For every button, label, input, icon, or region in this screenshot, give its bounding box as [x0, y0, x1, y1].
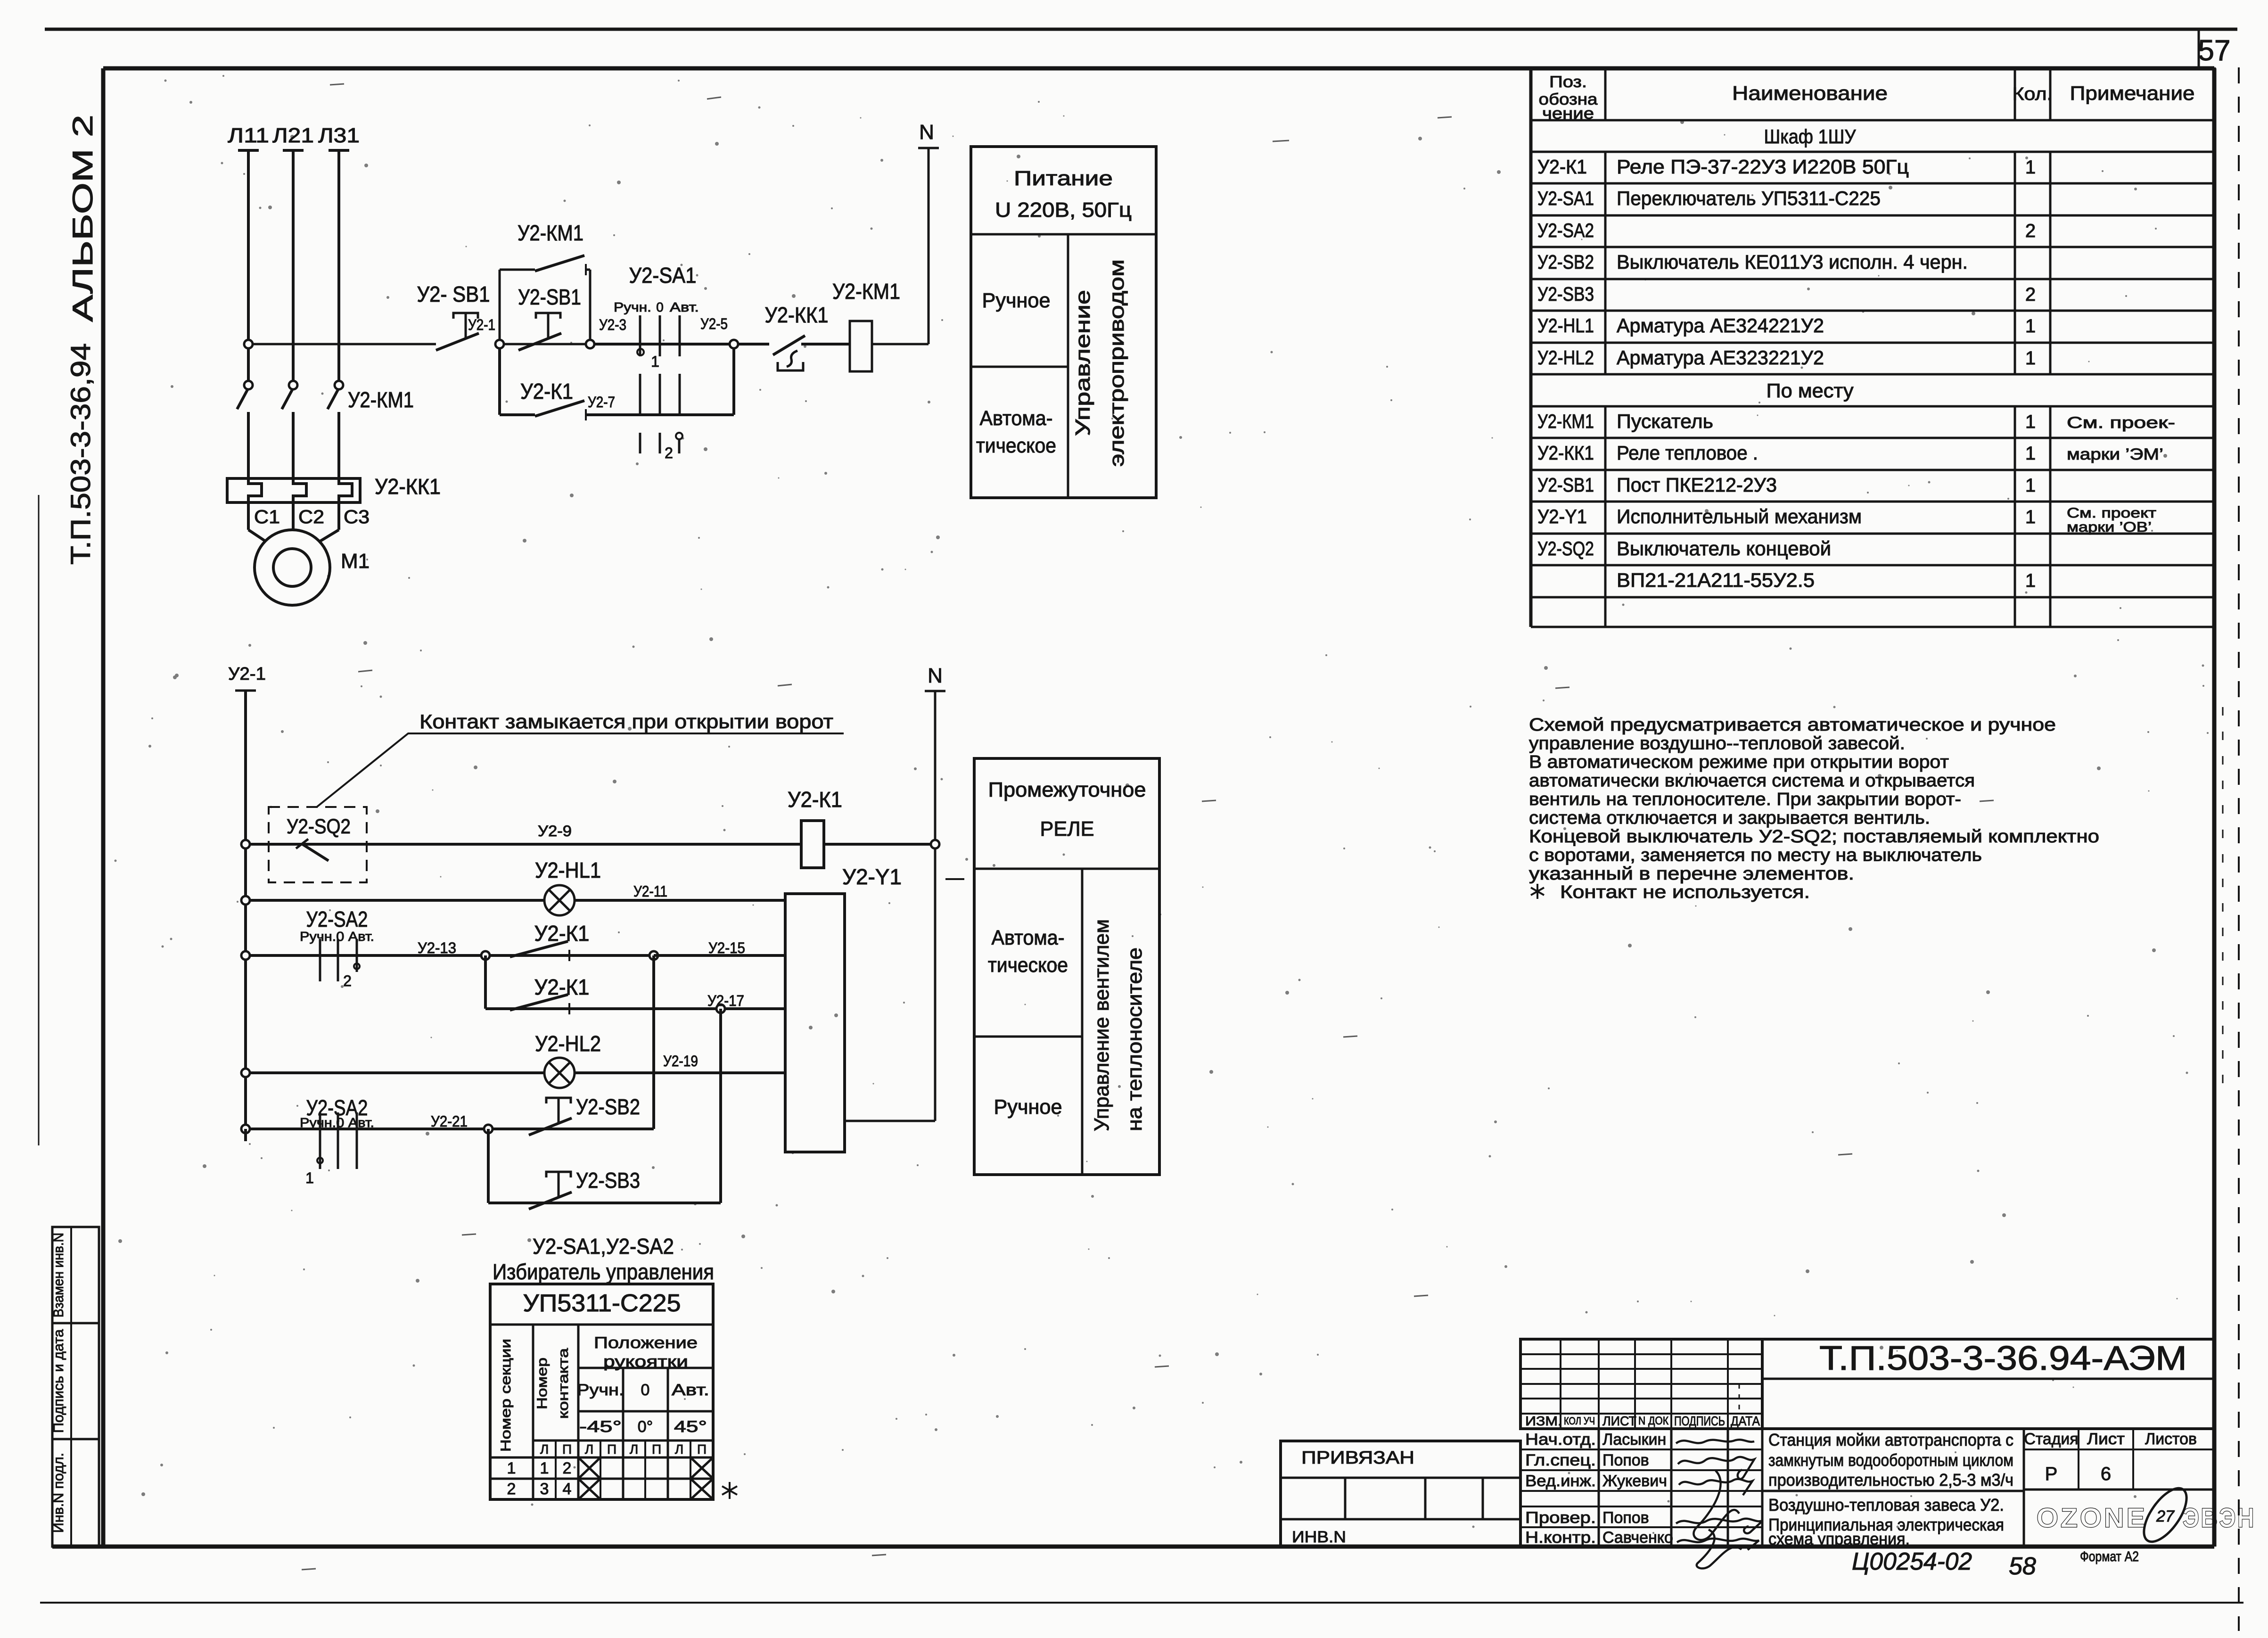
svg-text:0: 0 — [641, 1381, 650, 1399]
svg-text:1: 1 — [2025, 475, 2036, 496]
svg-text:Гл.спец.: Гл.спец. — [1525, 1451, 1596, 1469]
svg-text:2: 2 — [2025, 284, 2036, 305]
svg-text:Ц00254-02: Ц00254-02 — [1852, 1548, 1972, 1575]
svg-text:У2- SB1: У2- SB1 — [417, 282, 490, 306]
svg-text:1: 1 — [507, 1459, 516, 1477]
svg-text:В автоматическом режиме при от: В автоматическом режиме при открытии вор… — [1529, 752, 1949, 772]
svg-text:У2-7: У2-7 — [588, 394, 615, 411]
svg-text:У2-SB2: У2-SB2 — [576, 1095, 640, 1119]
svg-text:электроприводом: электроприводом — [1105, 259, 1128, 467]
svg-text:У2-К1: У2-К1 — [534, 921, 590, 946]
svg-text:схема управления.: схема управления. — [1768, 1529, 1910, 1548]
svg-text:У2-К1: У2-К1 — [788, 787, 842, 812]
svg-text:Ручн.: Ручн. — [614, 300, 651, 314]
svg-text:ЛИСТ: ЛИСТ — [1602, 1414, 1636, 1428]
svg-text:Автома-: Автома- — [992, 926, 1065, 949]
svg-text:У2-SA2: У2-SA2 — [306, 907, 368, 931]
svg-text:производительностью 2,5-3 м3/ч: производительностью 2,5-3 м3/ч — [1768, 1470, 2013, 1490]
svg-text:Попов: Попов — [1602, 1509, 1649, 1527]
svg-text:ПОДПИСЬ: ПОДПИСЬ — [1674, 1414, 1725, 1428]
svg-text:Попов: Попов — [1602, 1451, 1649, 1469]
svg-text:Ручн.0 Авт.: Ручн.0 Авт. — [300, 929, 374, 944]
svg-text:Положение: Положение — [594, 1334, 698, 1352]
svg-text:марки ’ЭМ’: марки ’ЭМ’ — [2067, 445, 2163, 463]
svg-text:Наименование: Наименование — [1732, 82, 1888, 104]
svg-text:У2-SA1,У2-SA2: У2-SA1,У2-SA2 — [533, 1234, 674, 1259]
svg-text:45°: 45° — [674, 1418, 707, 1436]
svg-text:У2-К1: У2-К1 — [520, 379, 573, 403]
svg-text:У2-15: У2-15 — [708, 939, 745, 956]
svg-text:Управление вентилем: Управление вентилем — [1090, 919, 1113, 1131]
svg-text:Реле тепловое .: Реле тепловое . — [1617, 442, 1758, 464]
svg-text:У2-11: У2-11 — [633, 883, 667, 900]
svg-text:АЛЬБОМ 2: АЛЬБОМ 2 — [67, 115, 99, 322]
svg-text:ИНВ.N: ИНВ.N — [1292, 1528, 1346, 1546]
svg-text:У2-HL2: У2-HL2 — [1537, 346, 1594, 369]
svg-text:У2-SQ2: У2-SQ2 — [287, 815, 351, 838]
svg-text:У2-SA2: У2-SA2 — [1537, 219, 1594, 241]
svg-text:1: 1 — [2025, 570, 2036, 591]
svg-text:контакта: контакта — [556, 1348, 571, 1419]
svg-text:Ручное: Ручное — [982, 289, 1051, 312]
svg-text:У2-13: У2-13 — [418, 939, 456, 956]
svg-text:У2-5: У2-5 — [700, 315, 728, 332]
svg-text:Жукевич: Жукевич — [1602, 1472, 1667, 1490]
svg-text:УП5311-С225: УП5311-С225 — [523, 1290, 681, 1317]
svg-text:Л: Л — [585, 1442, 593, 1457]
svg-text:27: 27 — [2156, 1507, 2175, 1525]
svg-text:вентиль на теплоносителе. При: вентиль на теплоносителе. При закрытии в… — [1529, 790, 1961, 809]
svg-text:У2-1: У2-1 — [228, 664, 266, 684]
svg-text:У2-КМ1: У2-КМ1 — [348, 387, 414, 412]
svg-text:П: П — [562, 1442, 572, 1457]
svg-text:2: 2 — [563, 1459, 572, 1477]
svg-text:У2-SB1: У2-SB1 — [1537, 474, 1594, 496]
svg-text:Номер: Номер — [534, 1358, 550, 1409]
svg-text:на теплоносителе: на теплоносителе — [1123, 947, 1146, 1131]
svg-text:Т.П.503-3-36,94: Т.П.503-3-36,94 — [66, 343, 96, 565]
svg-text:6: 6 — [2101, 1464, 2111, 1484]
svg-text:1: 1 — [2025, 507, 2036, 527]
svg-text:автоматически включается систе: автоматически включается система и откры… — [1529, 771, 1975, 791]
svg-text:1: 1 — [2025, 412, 2036, 432]
svg-text:Выключатель КЕ011У3 исполн. 4: Выключатель КЕ011У3 исполн. 4 черн. — [1617, 251, 1968, 273]
svg-text:тическое: тическое — [988, 954, 1068, 977]
svg-text:N ДОК: N ДОК — [1638, 1415, 1668, 1427]
svg-text:Провер.: Провер. — [1525, 1509, 1596, 1527]
svg-text:1: 1 — [2025, 157, 2036, 178]
svg-text:Арматура АЕ323221У2: Арматура АЕ323221У2 — [1617, 346, 1824, 369]
svg-text:рукоятки: рукоятки — [603, 1353, 688, 1371]
svg-text:См. проект: См. проект — [2067, 505, 2156, 521]
svg-text:М1: М1 — [341, 550, 370, 573]
svg-text:OZONE: OZONE — [2037, 1503, 2147, 1533]
svg-text:У2-К1: У2-К1 — [1537, 156, 1587, 178]
svg-text:У2-HL1: У2-HL1 — [1537, 314, 1594, 337]
svg-text:У2-КК1: У2-КК1 — [375, 474, 441, 499]
svg-text:См. проек-: См. проек- — [2067, 414, 2175, 432]
svg-text:Савченко: Савченко — [1602, 1529, 1673, 1547]
svg-text:2: 2 — [343, 972, 352, 989]
svg-text:Контакт не используется.: Контакт не используется. — [1560, 882, 1810, 902]
svg-text:Номер секции: Номер секции — [498, 1339, 514, 1452]
svg-text:Промежуточное: Промежуточное — [988, 778, 1146, 801]
svg-text:Л: Л — [675, 1442, 683, 1457]
svg-text:2: 2 — [665, 444, 673, 461]
svg-text:Пускатель: Пускатель — [1617, 410, 1713, 432]
svg-text:У2-SA1: У2-SA1 — [1537, 187, 1594, 209]
svg-text:система отключается и закрывае: система отключается и закрывается вентил… — [1529, 808, 1930, 828]
svg-text:1: 1 — [651, 353, 659, 370]
svg-text:Примечание: Примечание — [2070, 82, 2195, 104]
svg-text:Подпись и дата: Подпись и дата — [51, 1329, 66, 1433]
svg-text:П: П — [607, 1442, 616, 1457]
svg-text:У2-17: У2-17 — [707, 992, 744, 1009]
svg-text:Л: Л — [630, 1442, 638, 1457]
svg-text:У2-3: У2-3 — [599, 316, 626, 333]
svg-text:1: 1 — [540, 1459, 549, 1477]
svg-text:Переключатель УП5311-С225: Переключатель УП5311-С225 — [1617, 187, 1881, 209]
svg-text:Кол.: Кол. — [2013, 84, 2053, 104]
svg-text:С2: С2 — [298, 507, 324, 527]
svg-text:Листов: Листов — [2145, 1430, 2197, 1448]
svg-text:Вед.инж.: Вед.инж. — [1525, 1472, 1596, 1490]
svg-text:0: 0 — [656, 300, 664, 314]
svg-text:Выключатель концевой: Выключатель концевой — [1617, 537, 1831, 560]
svg-text:Воздушно-тепловая завеса У2.: Воздушно-тепловая завеса У2. — [1768, 1495, 2004, 1515]
svg-text:У2-9: У2-9 — [538, 823, 572, 840]
svg-text:U 220В, 50Гц: U 220В, 50Гц — [995, 198, 1132, 222]
svg-text:У2-КМ1: У2-КМ1 — [1537, 410, 1594, 432]
svg-text:Стадия: Стадия — [2024, 1430, 2079, 1448]
svg-text:1: 1 — [305, 1169, 314, 1186]
svg-text:управление воздушно--тепловой: управление воздушно--тепловой завесой. — [1529, 734, 1905, 754]
svg-text:У2-19: У2-19 — [663, 1053, 698, 1070]
svg-text:Р: Р — [2045, 1464, 2058, 1484]
svg-text:ВП21-21А211-55У2.5: ВП21-21А211-55У2.5 — [1617, 569, 1815, 591]
svg-text:марки ’ОВ’: марки ’ОВ’ — [2067, 519, 2152, 535]
svg-text:Ручн.0 Авт.: Ручн.0 Авт. — [300, 1115, 374, 1130]
svg-text:У2-21: У2-21 — [431, 1113, 468, 1130]
svg-text:58: 58 — [2009, 1553, 2036, 1580]
svg-text:У2-SB1: У2-SB1 — [518, 285, 581, 309]
svg-text:Контакт замыкается при открыти: Контакт замыкается при открытии ворот — [419, 710, 833, 733]
svg-text:У2-HL2: У2-HL2 — [535, 1031, 601, 1056]
svg-text:Лист: Лист — [2087, 1430, 2125, 1448]
svg-text:У2-SB2: У2-SB2 — [1537, 251, 1594, 273]
svg-text:Ручн.: Ручн. — [577, 1381, 624, 1399]
svg-text:N: N — [928, 664, 943, 687]
svg-text:ДАТА: ДАТА — [1731, 1414, 1760, 1428]
svg-text:Реле ПЭ-37-22У3 И220В 50Гц: Реле ПЭ-37-22У3 И220В 50Гц — [1617, 156, 1909, 178]
svg-text:Схемой предусматривается автом: Схемой предусматривается автоматическое … — [1529, 715, 2056, 735]
svg-text:Ручное: Ручное — [994, 1095, 1062, 1119]
svg-text:ИЗМ.: ИЗМ. — [1525, 1414, 1562, 1428]
svg-text:Н.контр.: Н.контр. — [1525, 1529, 1596, 1547]
svg-text:Питание: Питание — [1014, 167, 1113, 190]
svg-text:Т.П.503-3-36.94-АЭМ: Т.П.503-3-36.94-АЭМ — [1819, 1340, 2187, 1377]
svg-text:Инв.N подл.: Инв.N подл. — [51, 1453, 66, 1533]
svg-text:У2-HL1: У2-HL1 — [535, 858, 601, 882]
svg-text:Управление: Управление — [1071, 290, 1094, 436]
svg-text:Станция мойки автотранспорта с: Станция мойки автотранспорта с — [1768, 1430, 2013, 1449]
svg-text:4: 4 — [563, 1480, 572, 1498]
svg-text:Избиратель управления: Избиратель управления — [493, 1259, 714, 1284]
svg-text:замкнутым водооборотным циклом: замкнутым водооборотным циклом — [1768, 1450, 2013, 1470]
svg-text:С1: С1 — [254, 507, 280, 527]
svg-text:ЭВЭН: ЭВЭН — [2183, 1503, 2256, 1533]
svg-text:Автома-: Автома- — [980, 407, 1053, 430]
svg-text:Нач.отд.: Нач.отд. — [1525, 1431, 1596, 1449]
svg-text:У2-КК1: У2-КК1 — [1537, 442, 1594, 464]
svg-text:ПРИВЯЗАН: ПРИВЯЗАН — [1301, 1448, 1414, 1468]
svg-text:Авт.: Авт. — [672, 1381, 709, 1399]
svg-text:-45°: -45° — [579, 1418, 622, 1436]
svg-text:2: 2 — [2025, 221, 2036, 241]
svg-text:У2-SB3: У2-SB3 — [1537, 283, 1594, 305]
svg-text:1: 1 — [2025, 443, 2036, 464]
svg-text:У2-SA1: У2-SA1 — [629, 263, 697, 288]
svg-text:Л: Л — [540, 1442, 549, 1457]
svg-text:П: П — [697, 1442, 707, 1457]
svg-text:Взамен инв.N: Взамен инв.N — [51, 1233, 66, 1317]
svg-text:указанный в перечне элементов.: указанный в перечне элементов. — [1529, 864, 1854, 884]
svg-text:У2-Y1: У2-Y1 — [1537, 505, 1587, 527]
svg-text:1: 1 — [2025, 348, 2036, 369]
svg-text:У2-1: У2-1 — [468, 316, 495, 333]
svg-text:У2-SB3: У2-SB3 — [576, 1168, 640, 1193]
svg-text:Арматура АЕ324221У2: Арматура АЕ324221У2 — [1617, 314, 1824, 337]
svg-text:У2-SQ2: У2-SQ2 — [1537, 537, 1594, 560]
svg-text:П: П — [652, 1442, 661, 1457]
svg-text:Исполнительный механизм: Исполнительный механизм — [1617, 505, 1862, 527]
svg-text:2: 2 — [507, 1480, 516, 1498]
svg-text:Шкаф 1ШУ: Шкаф 1ШУ — [1764, 125, 1856, 148]
svg-text:С3: С3 — [344, 507, 370, 527]
svg-text:РЕЛЕ: РЕЛЕ — [1040, 817, 1094, 840]
svg-text:Л11: Л11 — [228, 124, 269, 147]
svg-text:Авт.: Авт. — [670, 300, 699, 314]
svg-text:57: 57 — [2198, 34, 2231, 67]
svg-text:Пост ПКЕ212-2У3: Пост ПКЕ212-2У3 — [1617, 474, 1777, 496]
svg-text:Поз.: Поз. — [1549, 73, 1587, 91]
svg-text:1: 1 — [2025, 316, 2036, 337]
svg-text:0°: 0° — [638, 1418, 653, 1436]
svg-text:У2-КМ1: У2-КМ1 — [832, 279, 900, 304]
svg-text:Л31: Л31 — [318, 124, 360, 147]
svg-text:КОЛ УЧ: КОЛ УЧ — [1564, 1415, 1595, 1427]
svg-text:3: 3 — [540, 1480, 549, 1498]
svg-text:У2-Y1: У2-Y1 — [842, 864, 902, 889]
svg-text:У2-КМ1: У2-КМ1 — [518, 221, 583, 245]
svg-text:Концевой выключатель У2-SQ2; п: Концевой выключатель У2-SQ2; поставляемы… — [1529, 827, 2099, 847]
svg-text:с воротами, заменяется по мест: с воротами, заменяется по месту на выклю… — [1529, 846, 1982, 865]
svg-text:По месту: По месту — [1767, 379, 1854, 402]
svg-text:Формат А2: Формат А2 — [2080, 1549, 2139, 1564]
svg-text:тическое: тическое — [976, 434, 1056, 457]
svg-text:чение: чение — [1542, 105, 1594, 123]
svg-text:N: N — [919, 121, 934, 144]
svg-text:У2-КК1: У2-КК1 — [765, 303, 829, 327]
svg-text:Ласыкин: Ласыкин — [1602, 1431, 1666, 1449]
